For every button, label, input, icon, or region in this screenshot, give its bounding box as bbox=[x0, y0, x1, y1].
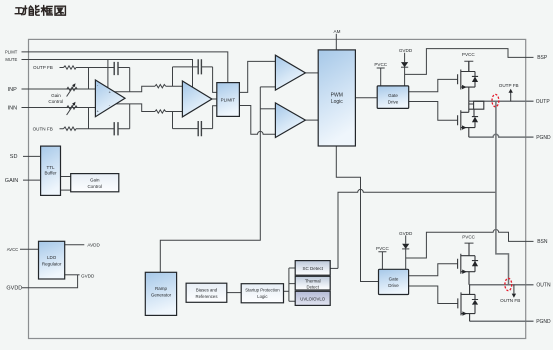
svg-text:MUTE: MUTE bbox=[5, 57, 17, 62]
wire C1 to U1 output bbox=[129, 68, 131, 92]
arrow OUTN FB bbox=[513, 285, 515, 294]
svg-text:PWM: PWM bbox=[331, 93, 343, 99]
wire PGND N line bbox=[470, 320, 534, 322]
block Gate Drive U3 bbox=[377, 86, 409, 109]
wire SD bbox=[23, 155, 41, 157]
wire SC detect sense line (hop over 360.5) bbox=[338, 189, 496, 268]
diode D2 body bbox=[472, 109, 478, 127]
wire OUTN FB lead bbox=[60, 128, 130, 130]
resistor R1 OUTP FB bbox=[64, 66, 77, 69]
transistor Q1 bbox=[458, 61, 475, 101]
source arrow Q3 bbox=[462, 270, 467, 274]
svg-text:OUTP FB: OUTP FB bbox=[499, 83, 519, 88]
diode D6 triangle bbox=[402, 244, 409, 249]
diode D5 triangle bbox=[401, 62, 408, 67]
svg-text:Gain: Gain bbox=[51, 93, 61, 98]
source arrow Q1 bbox=[462, 85, 467, 89]
svg-text:Detect: Detect bbox=[306, 285, 319, 290]
wire OUTN output line bbox=[469, 284, 534, 286]
op-amp U1 bbox=[95, 80, 125, 117]
wire biases to startup bbox=[227, 292, 241, 294]
svg-text:LDO: LDO bbox=[47, 255, 57, 260]
wire PWM bottom to gate drive U4 (hop at 192) bbox=[336, 146, 378, 282]
wire INP bbox=[22, 88, 96, 90]
wire protection bracket bbox=[289, 268, 295, 301]
wire gate drive U4 to Q3 gate bbox=[409, 264, 458, 276]
wire bootstrap N to BSN (hop over outp sense) bbox=[406, 230, 534, 259]
block Thermal Detect bbox=[295, 276, 330, 290]
wire OUTN FB to INN node bbox=[88, 108, 90, 129]
svg-text:UVLO/OVLO: UVLO/OVLO bbox=[300, 297, 325, 302]
wire C2 to U1 output bbox=[129, 104, 131, 129]
svg-text:Gate: Gate bbox=[388, 93, 398, 98]
block Gain Control bbox=[71, 174, 119, 192]
svg-text:INP: INP bbox=[8, 87, 18, 93]
wire PLIMT pin to PLIMIT block bbox=[22, 52, 228, 83]
capacitor C2 plates bbox=[114, 122, 118, 135]
comparator CMP2 bbox=[275, 103, 305, 138]
svg-text:AM: AM bbox=[334, 29, 341, 34]
wire TTL buffer to gain control 2 bbox=[61, 189, 71, 191]
source arrow Q4 bbox=[462, 311, 467, 315]
wire OUTP FB to INP node bbox=[88, 68, 90, 90]
red ellipse OUTP bbox=[492, 94, 499, 106]
wire MUTE pin line bbox=[22, 60, 193, 88]
block Startup Protection Logic bbox=[241, 284, 283, 303]
wire ramp generator riser bbox=[160, 87, 260, 272]
wire OUTP output line bbox=[469, 100, 534, 102]
block Biases and References bbox=[186, 283, 227, 302]
svg-text:BSP: BSP bbox=[537, 55, 548, 61]
svg-text:PVCC: PVCC bbox=[462, 235, 475, 240]
wire PVCC to gate drive U4 bbox=[378, 252, 386, 269]
capacitor C3 plates bbox=[198, 59, 201, 74]
svg-text:AVCC: AVCC bbox=[7, 247, 18, 252]
arrow OUTP FB bbox=[510, 92, 512, 101]
diode D5 GVDD bootstrap P bbox=[404, 53, 406, 86]
svg-text:Buffer: Buffer bbox=[45, 171, 57, 176]
wire AVDD bbox=[65, 244, 85, 246]
wire U1 lower output to U2 bbox=[114, 104, 183, 112]
wire PLIMIT out B to comparator CMP2 (hop over ramp) bbox=[239, 106, 275, 135]
wire INN bbox=[22, 107, 96, 109]
svg-text:Logic: Logic bbox=[331, 99, 343, 105]
wire U2 output to PLIMIT bbox=[212, 98, 217, 100]
wire ramp to CMP2 bbox=[260, 108, 275, 110]
svg-text:OUTN FB: OUTN FB bbox=[33, 127, 53, 132]
svg-text:PVCC: PVCC bbox=[462, 52, 475, 57]
wire gate drive U4 to Q4 gate bbox=[409, 286, 458, 304]
wire ramp to CMP1 bbox=[260, 86, 275, 88]
block Ramp Generator bbox=[145, 272, 176, 315]
wire gate drive U3 to Q2 gate bbox=[409, 102, 458, 121]
svg-text:SD: SD bbox=[10, 154, 18, 160]
wire PWM to gate drive U3 bbox=[355, 97, 377, 99]
diode D6 GVDD bootstrap N bbox=[405, 235, 407, 269]
svg-text:PLIMIT: PLIMIT bbox=[221, 97, 236, 102]
svg-text:OUTN FB: OUTN FB bbox=[500, 298, 520, 303]
svg-text:Logic: Logic bbox=[257, 294, 268, 299]
svg-text:GVDD: GVDD bbox=[6, 286, 22, 292]
svg-text:Thermal: Thermal bbox=[305, 279, 321, 284]
svg-text:INN: INN bbox=[8, 105, 18, 111]
wire CMP1 output to PWM bbox=[305, 72, 318, 74]
wire OUTP FB lead bbox=[60, 67, 130, 69]
svg-text:Generator: Generator bbox=[151, 293, 172, 298]
wire PGND P line (hop over sense vertical) bbox=[469, 134, 534, 137]
red ellipse OUTN bbox=[505, 278, 512, 290]
wire CMP2 output to PWM bbox=[305, 119, 318, 121]
svg-text:PVCC: PVCC bbox=[374, 62, 387, 67]
block TTL Buffer bbox=[41, 146, 61, 195]
block UVLO/OVLO bbox=[295, 291, 330, 305]
wire PLIMIT out A to comparator CMP1 bbox=[239, 61, 275, 92]
wire GVDD internal stub bbox=[65, 274, 80, 276]
svg-text:References: References bbox=[196, 294, 218, 299]
svg-text:Drive: Drive bbox=[388, 99, 399, 104]
wire PVCC rail P bbox=[464, 61, 473, 71]
svg-text:BSN: BSN bbox=[537, 239, 548, 245]
svg-text:PLIMT: PLIMT bbox=[5, 49, 18, 54]
transistor Q3 bbox=[458, 243, 475, 285]
svg-text:AVDD: AVDD bbox=[87, 243, 100, 248]
svg-text:OUTN: OUTN bbox=[536, 282, 551, 288]
capacitor C4 plates bbox=[198, 121, 201, 136]
block SC Detect bbox=[295, 261, 330, 276]
svg-text:SC Detect: SC Detect bbox=[302, 266, 323, 271]
wire TTL buffer to gain control 1 bbox=[61, 176, 71, 178]
svg-text:Control: Control bbox=[87, 184, 102, 189]
svg-text:PGND: PGND bbox=[536, 135, 551, 141]
wire SC detect stub bbox=[330, 267, 338, 269]
svg-text:GVDD: GVDD bbox=[399, 48, 413, 53]
svg-text:GAIN: GAIN bbox=[5, 178, 18, 184]
svg-text:OUTP: OUTP bbox=[536, 99, 551, 105]
resistor R4 bbox=[155, 110, 166, 113]
wire gate drive U3 to Q1 gate bbox=[409, 79, 458, 91]
sense box P bbox=[469, 101, 484, 109]
svg-text:Biases and: Biases and bbox=[196, 288, 218, 293]
resistor R2 OUTN FB bbox=[64, 127, 77, 130]
wire startup to bracket bbox=[284, 290, 289, 292]
wire U1 upper output to U2 bbox=[114, 86, 183, 92]
transistor Q2 bbox=[458, 101, 475, 137]
wire bootstrap P to BSP bbox=[405, 49, 534, 75]
wire U2 bottom feedback loop bbox=[173, 106, 217, 129]
svg-text:PVCC: PVCC bbox=[376, 246, 389, 251]
svg-text:OUTP FB: OUTP FB bbox=[33, 65, 53, 70]
svg-text:Control: Control bbox=[48, 99, 63, 104]
svg-text:TTL: TTL bbox=[46, 165, 54, 170]
capacitor C1 plates bbox=[114, 62, 118, 75]
block Gate Drive U4 bbox=[379, 269, 409, 294]
svg-text:Gain: Gain bbox=[90, 178, 100, 183]
wire U2 top feedback loop bbox=[173, 67, 217, 93]
op-amp U2 bbox=[182, 81, 212, 117]
block PLIMIT bbox=[217, 83, 240, 117]
IC boundary bbox=[29, 39, 526, 338]
wire GAIN bbox=[23, 179, 41, 181]
transistor Q4 bbox=[458, 285, 475, 322]
source arrow Q2 bbox=[462, 125, 467, 129]
svg-text:GVDD: GVDD bbox=[81, 274, 95, 279]
wire MUTE drop to op-amp U1 bbox=[107, 60, 109, 88]
block PWM Logic bbox=[318, 50, 355, 146]
variable resistor RV1 on INP bbox=[67, 87, 77, 90]
wire GVDD pin bbox=[22, 275, 78, 288]
wire PVCC to gate drive U3 bbox=[377, 68, 385, 86]
diode D3 body bbox=[472, 256, 478, 272]
wire AVCC bbox=[20, 248, 39, 250]
resistor R3 bbox=[155, 85, 166, 88]
svg-text:Regulator: Regulator bbox=[42, 262, 62, 267]
block LDO Regulator bbox=[39, 241, 65, 279]
diode D4 body bbox=[472, 294, 478, 313]
svg-text:Drive: Drive bbox=[388, 283, 399, 288]
comparator CMP1 bbox=[275, 55, 305, 90]
svg-text:PGND: PGND bbox=[536, 319, 551, 325]
svg-text:Startup Protection: Startup Protection bbox=[245, 288, 280, 293]
title 功能框图 (hand-drawn strokes) bbox=[15, 6, 65, 16]
svg-text:Gate: Gate bbox=[389, 277, 399, 282]
variable resistor RV2 on INN bbox=[67, 106, 77, 109]
svg-text:GVDD: GVDD bbox=[399, 231, 413, 236]
diode D1 body bbox=[472, 72, 478, 88]
wire OUTP sense vertical down to OUTN bbox=[496, 101, 509, 285]
wire PVCC rail N bbox=[465, 243, 474, 256]
wire AM pin bbox=[335, 34, 337, 50]
svg-text:Ramp: Ramp bbox=[155, 286, 168, 291]
